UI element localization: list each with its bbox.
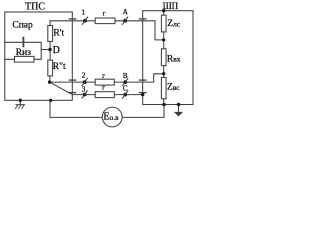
wire Zvc top stub <box>163 74 165 78</box>
terminal tick wireC ShP edge <box>140 92 146 94</box>
terminal tick wire2 TPS edge <box>69 79 75 81</box>
wire node D to loop <box>41 49 50 51</box>
junction node Zlc top <box>162 9 165 12</box>
junction node R"t bottom <box>48 80 51 83</box>
slash node C <box>122 90 128 98</box>
resistor r line2 <box>95 79 114 85</box>
resistor R't <box>48 26 53 42</box>
impedance Zvc (Zвс) <box>161 77 166 98</box>
ground chassis right stub <box>178 105 180 113</box>
terminal tick wire1 ShP edge <box>140 18 146 20</box>
wire Eov left riser <box>50 100 103 117</box>
junction node Eov tap <box>49 99 52 102</box>
svg-text:Спар: Спар <box>12 21 33 31</box>
wire Rvx bottom stub <box>163 66 165 74</box>
svg-text:Zлс: Zлс <box>167 19 181 29</box>
svg-text:Ео.в: Ео.в <box>103 112 119 123</box>
junction node ground right <box>177 103 180 106</box>
svg-text:ШП: ШП <box>163 1 179 11</box>
wire Zlc bottom stub <box>163 32 165 40</box>
junction node ground left <box>19 99 22 102</box>
resistor Riz (Rиз) <box>15 56 35 62</box>
svg-text:3: 3 <box>82 86 86 94</box>
node 1 dot <box>83 19 87 23</box>
svg-text:R"t: R"t <box>53 62 66 72</box>
wire Rvx top stub <box>163 40 165 49</box>
source Eov circle (Ео.в) <box>102 107 122 127</box>
wire R't top stub <box>49 21 51 26</box>
terminal tick wire3 TPS edge <box>69 92 75 94</box>
wire 2 (line conductor 2 to B) <box>50 74 164 82</box>
junction node wireC at ShP edge <box>141 93 144 96</box>
wire loop Cpar/Riz to housing <box>5 42 41 59</box>
resistor R"t <box>48 60 53 76</box>
svg-text:С: С <box>123 84 128 92</box>
slash node 3 <box>82 90 88 98</box>
wire 3 (line conductor 3 to C) <box>50 82 143 95</box>
slash node A <box>122 17 128 25</box>
impedance Zlc (Zлс) <box>161 15 166 32</box>
svg-text:R't: R't <box>53 29 64 39</box>
svg-text:Zвс: Zвс <box>167 82 180 92</box>
terminal tick wire1 TPS edge <box>69 18 75 20</box>
resistor r line3 <box>95 92 114 98</box>
svg-text:D: D <box>53 45 60 56</box>
svg-text:г: г <box>103 10 106 18</box>
junction node Zlc/Rvx (wire1) <box>162 38 165 41</box>
terminal tick wireB ShP edge <box>140 79 146 81</box>
svg-text:1: 1 <box>82 9 86 17</box>
slash node 2 <box>82 78 88 86</box>
resistor r line1 <box>95 18 115 24</box>
node C dot <box>123 93 127 97</box>
junction node Rvx/Zvc (wireB) <box>162 72 165 75</box>
svg-text:г: г <box>102 83 105 91</box>
node 3 dot <box>83 93 87 97</box>
wire R"t bottom stub <box>49 76 52 82</box>
node 2 dot <box>83 80 87 84</box>
ground earth left stub <box>19 100 21 104</box>
wire R't bottom to D to R"t <box>49 41 51 60</box>
capacitor Cpar (Спар) <box>22 38 24 47</box>
wire Eov right riser <box>122 105 164 118</box>
junction node Zvc bottom <box>162 103 165 106</box>
wire Zlc top stub <box>163 11 165 16</box>
node D dot <box>48 48 51 51</box>
ground earth left symbol <box>16 104 24 106</box>
svg-text:2: 2 <box>82 72 86 80</box>
box ShP (ШП housing) <box>143 11 193 105</box>
svg-text:В: В <box>123 72 128 80</box>
svg-text:г: г <box>102 72 105 80</box>
box TPS (ТПС housing) <box>5 12 73 100</box>
wire Zvc bottom stub <box>163 99 165 105</box>
svg-text:ТПС: ТПС <box>25 2 45 13</box>
wire 1 (line conductor 1) <box>50 21 164 40</box>
svg-text:А: А <box>123 8 128 16</box>
svg-text:Rиз: Rиз <box>16 48 31 58</box>
resistor Rvx (Rвх) <box>161 49 166 66</box>
node A dot <box>123 19 127 23</box>
svg-text:Rвх: Rвх <box>167 54 181 64</box>
slash node 1 <box>82 17 88 25</box>
ground chassis right symbol <box>175 112 182 116</box>
slash node B <box>122 78 128 86</box>
node B dot <box>123 80 127 84</box>
